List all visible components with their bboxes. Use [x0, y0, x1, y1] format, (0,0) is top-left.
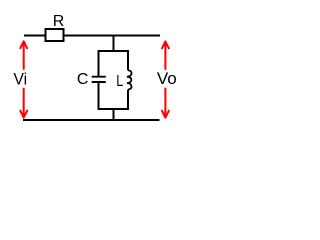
wire top left segment — [24, 35, 46, 37]
wire tank top — [98, 50, 130, 52]
wire junction drop — [113, 35, 115, 52]
svg-text:L: L — [116, 73, 123, 91]
node Vi arrow up — [23, 42, 25, 70]
svg-text:R: R — [53, 13, 65, 30]
svg-text:C: C — [77, 71, 89, 88]
wire inductor top lead — [127, 50, 129, 70]
wire capacitor top lead — [98, 50, 100, 77]
wire top right segment — [64, 35, 161, 37]
inductor L coil — [127, 70, 132, 89]
wire tank bottom — [98, 108, 130, 110]
wire capacitor bottom lead — [98, 82, 100, 110]
svg-text:Vo: Vo — [157, 69, 177, 88]
capacitor C plates — [92, 77, 106, 82]
node Vo arrow down — [164, 88, 166, 118]
resistor R (box) — [46, 29, 64, 41]
wire bottom link — [113, 109, 115, 121]
wire bottom — [23, 119, 160, 121]
node Vi arrow down — [23, 88, 25, 117]
svg-text:Vi: Vi — [14, 70, 28, 89]
wire inductor bottom lead — [127, 90, 129, 111]
node Vo arrow up — [164, 42, 166, 70]
